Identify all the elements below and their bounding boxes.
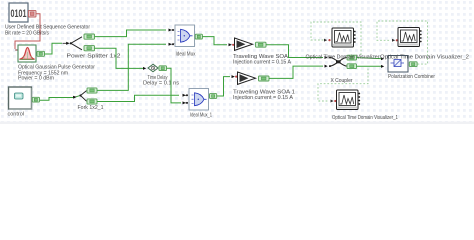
- Ideal Mux U2: [175, 25, 195, 47]
- arrow at polarization combiner input 1: [381, 57, 384, 60]
- wire: power splitter out2 to time delay input: [95, 48, 144, 68]
- output port 1 of fork (green): [87, 88, 97, 93]
- output port 1 of power splitter (green): [84, 34, 95, 39]
- output port of time delay (green): [159, 66, 167, 71]
- svg-text:Power = 0 dBm: Power = 0 dBm: [18, 76, 54, 82]
- svg-text:Optical Time Domain Visualizer: Optical Time Domain Visualizer_2: [380, 54, 469, 60]
- svg-text:Ideal Mux: Ideal Mux: [176, 51, 196, 57]
- output port of ideal mux_1 (green): [210, 94, 217, 99]
- Optical Time Domain Visualizer_2 V2 icon: [398, 28, 422, 47]
- arrow at X coupler input 2: [325, 65, 328, 68]
- User Defined Bit Sequence Generator U1 icon: [9, 3, 28, 22]
- svg-text:Optical Time Domain Visualizer: Optical Time Domain Visualizer: [306, 54, 380, 60]
- output port of gaussian pulse generator (green): [37, 51, 45, 56]
- label: Time Delay: [143, 75, 180, 87]
- svg-text:Power Splitter 1x2: Power Splitter 1x2: [67, 54, 121, 60]
- arrow at X coupler input 1: [325, 56, 328, 59]
- wire: SOA2 out to X coupler in2: [269, 66, 323, 78]
- output port of control (green): [32, 97, 39, 102]
- control generator icon: [9, 87, 32, 109]
- arrow + dot at ideal mux input 2: [169, 43, 175, 46]
- arrow + dot at visualizer_2 input: [392, 39, 398, 42]
- arrow + dot at visualizer_1 input: [331, 100, 337, 103]
- svg-text:Fork 1x2_1: Fork 1x2_1: [78, 105, 104, 111]
- dashed wire: X coupler out1 to optical time domain visualizer input: [311, 22, 361, 55]
- Optical Time Domain Visualizer_1 V3 icon: [337, 90, 361, 110]
- arrow + red dot at SOA2 input: [232, 75, 238, 78]
- arrow at ideal mux_1 input 2: [183, 101, 186, 104]
- input arrows of ideal mux: [172, 30, 175, 44]
- output port of SOA1 (green): [256, 42, 267, 47]
- wire: control to fork input: [40, 96, 80, 101]
- wire: ideal mux out to SOA1 input: [203, 37, 228, 45]
- svg-text:control: control: [8, 112, 25, 118]
- dashed wire: polarization combiner out to optical time domain visualizer_2 input: [377, 21, 428, 64]
- svg-text:X Coupler: X Coupler: [331, 78, 353, 84]
- Traveling Wave SOA 1 A2 (triangle): [238, 72, 256, 84]
- arrow + port dot at ideal mux input 1: [169, 29, 175, 32]
- svg-text:0101: 0101: [11, 8, 27, 20]
- wire: time delay out to ideal mux_1 in2: [167, 68, 182, 103]
- arrow + red dot at SOA1 input: [229, 43, 235, 46]
- Polarization Combiner PC1: [388, 56, 408, 73]
- wire: SOA1 out to X coupler in1: [266, 45, 323, 58]
- arrow at time delay input: [143, 67, 146, 70]
- Optical Gaussian Pulse Generator icon: [18, 45, 36, 62]
- output port of bit sequence generator (electrical, red): [28, 10, 36, 17]
- wire: bit sequence generator to gaussian pulse generator (red electrical): [15, 14, 40, 50]
- svg-text:Polarization Combiner: Polarization Combiner: [388, 74, 435, 80]
- Time Delay TD1 icon (diamond): [148, 64, 158, 72]
- svg-text:Bit rate = 20 GBits/s: Bit rate = 20 GBits/s: [5, 31, 49, 37]
- wire: X coupler out1 to polarization combiner in1: [357, 58, 382, 59]
- Ideal Mux_1 U3: [189, 89, 209, 111]
- Optical Time Domain Visualizer V1 icon: [332, 28, 356, 47]
- output port 1 of X coupler (green): [347, 55, 357, 60]
- svg-text:Optical Time Domain Visualizer: Optical Time Domain Visualizer_1: [332, 115, 398, 121]
- Traveling Wave SOA A1 (triangle): [235, 38, 253, 50]
- output port 2 of power splitter (green): [84, 46, 95, 51]
- output port 2 of fork (green): [87, 99, 97, 104]
- arrow at polarization combiner input 2: [381, 65, 384, 68]
- dashed wire: X coupler out2 to optical time domain visualizer_1 input: [318, 69, 368, 101]
- svg-text:Delay = 0.1 ns: Delay = 0.1 ns: [143, 81, 180, 87]
- label: User Defined Bit Sequence Generator: [5, 25, 90, 37]
- wire: fork out1 up to ideal mux in2: [97, 44, 166, 90]
- label: Optical Gaussian Pulse Generator: [18, 65, 95, 82]
- X Coupler XC1: [329, 57, 347, 68]
- arrow + dot at visualizer input: [324, 39, 331, 42]
- wire: fork out2 to ideal mux_1 in1: [97, 95, 179, 101]
- wire: power splitter out1 to ideal mux in1: [95, 30, 167, 37]
- svg-text:User Defined Bit Sequence Gene: User Defined Bit Sequence Generator: [5, 25, 90, 31]
- arrow + dot at ideal mux_1 input 1: [183, 94, 189, 97]
- output port 2 of X coupler (green): [347, 64, 357, 69]
- input arrows of ideal mux_1: [185, 95, 188, 103]
- output port of SOA2 (green): [259, 76, 270, 81]
- wire: X coupler out2 to polarization combiner in2: [357, 65, 382, 67]
- svg-text:Injection current = 0.15 A: Injection current = 0.15 A: [233, 95, 294, 101]
- output port of polarization combiner (green): [409, 62, 417, 67]
- output port of ideal mux (green): [195, 34, 202, 39]
- wire: ideal mux_1 out to SOA2 input: [217, 77, 230, 96]
- Power Splitter 1x2 PS1: [63, 37, 83, 50]
- svg-text:Ideal Mux_1: Ideal Mux_1: [190, 112, 212, 118]
- arrow at fork input: [73, 96, 77, 99]
- svg-text:Injection current = 0.15 A: Injection current = 0.15 A: [233, 60, 292, 66]
- label: Traveling Wave SOA: [233, 54, 292, 66]
- Fork 1x2_1 F1: [79, 91, 86, 102]
- label: Traveling Wave SOA 1: [233, 89, 295, 101]
- wire: gaussian pulse generator to power splitter: [45, 43, 63, 54]
